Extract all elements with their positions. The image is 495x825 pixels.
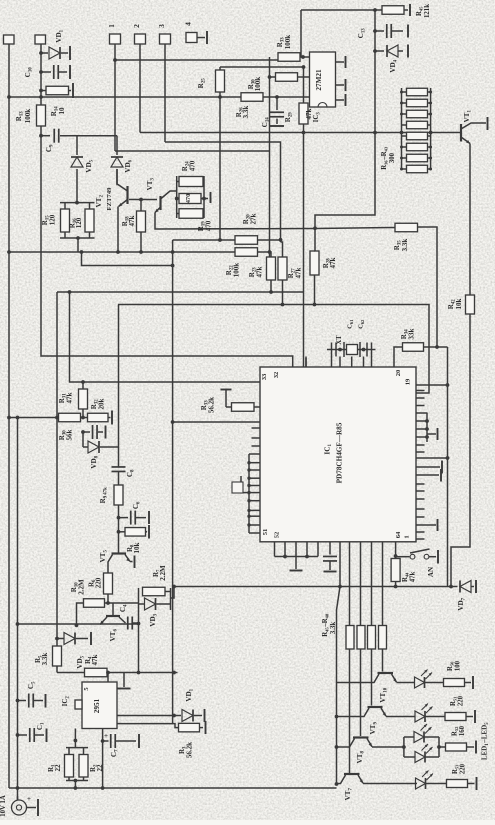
node pin19 [446,383,450,387]
node A2 [7,250,11,254]
transistor VT7 [344,773,360,775]
pin IC1 R44 stub [395,542,397,559]
svg-text:33: 33 [261,373,268,380]
pin wire y458 [416,457,448,459]
diode VD6 [116,136,118,155]
pin IC2 top [107,673,109,683]
resistor R45 121k [382,6,404,15]
diode VD8 [83,446,88,448]
node R25 bottom [218,95,222,99]
node top bus [373,8,377,12]
node C13 [373,29,377,33]
wire left bus A from pad to bottom rail [8,44,10,788]
node R1R2 rail [74,786,78,790]
transistor VT3 [159,196,161,210]
svg-text:27M21: 27M21 [315,69,323,91]
svg-text:47k: 47k [329,257,337,268]
node x138 bus624 [137,622,141,626]
resistor R52 160 [446,743,467,751]
node R29 bottom / bus y132 [302,131,306,135]
IC2 2951 [82,682,117,729]
node x172 bus cross [171,250,175,254]
power connector 10V 1A [12,800,27,815]
resistor R45b 3.3k [346,626,354,650]
svg-text:100: 100 [455,660,462,671]
wire bus y586 to VD7 [174,586,451,588]
pad terminal 1 [110,34,121,44]
capacitor C7 + [103,740,109,742]
terminal pin y525 [416,524,436,526]
wire bus y151 (pad1) [115,150,270,152]
node pad2-R [39,89,43,93]
pin IC2 right 1 wire [117,715,174,717]
capacitor C63 bottom [329,542,331,555]
wire x447 down [447,347,449,587]
resistor R15 [64,203,66,209]
wire bus y624 [18,623,139,625]
wire top bus y97 [9,96,310,98]
diode VD5b [57,638,64,640]
node R35 feed [313,226,317,230]
svg-text:AN: AN [427,567,435,577]
svg-text:220: 220 [95,577,103,588]
node x57 vertical [55,416,59,420]
diode VD1 [41,52,48,54]
svg-text:10V 1A: 10V 1A [0,795,7,817]
wire IC1 pin column K1 (common driver rail) [337,542,341,784]
resistor R50 100 [444,679,465,687]
svg-text:100k: 100k [254,77,262,92]
transistor VT1 [460,124,462,142]
diode VD4 [375,50,384,52]
capacitor C4 [127,617,129,630]
pin IC1 right short stubs [416,390,425,392]
pad P1 top-left [4,35,15,44]
capacitor C12 [83,431,90,433]
wire stack left rail [176,176,178,218]
svg-text:470: 470 [205,220,213,231]
node driver rail 716 [335,715,339,719]
wire bank left rail [401,88,403,170]
node pad2-C10 [39,70,43,74]
wire bank right rail [430,88,432,170]
svg-text:47k: 47k [66,392,74,403]
resistor R42 (bank 300) [407,154,428,162]
hook feed on left bus [243,492,249,494]
resistor R30b 56k [59,413,81,422]
svg-text:220: 220 [460,763,467,774]
svg-text:3.3k: 3.3k [242,106,250,119]
node C7 line rail [101,786,105,790]
terminal pad4 [197,37,205,39]
wire R30 left down [269,77,271,257]
node R27 feed [279,238,283,242]
svg-text:47k: 47k [305,108,313,119]
wire pair bottom down to bus [77,238,79,252]
wire IC1 pin column K4 [371,542,373,626]
svg-text:52: 52 [274,531,281,538]
node hang y252 [80,250,84,254]
svg-text:470: 470 [189,160,197,171]
resistor R16 [89,203,91,209]
node R8 branch [117,530,121,534]
resistor R8 10k [119,531,126,533]
wire bus y240 [173,239,235,241]
node driver rail 784 [335,782,339,786]
capacitor C13 [375,30,384,32]
LED row4 [416,778,426,789]
node XT left [338,348,342,352]
node R23b bottom [269,290,273,294]
wire IC1 pin column K2 [349,542,351,626]
diode VD3 [145,598,156,610]
LED row1 [415,677,425,688]
LED row3 dual [402,745,406,749]
svg-text:47k: 47k [91,654,99,665]
capacitor C62 [366,343,368,357]
IC3 27M21 [310,52,336,107]
wire bus y672 [57,672,178,674]
LED row2 [415,711,425,722]
node pair bottom to rail [74,779,78,783]
capacitor C9 [41,135,50,137]
node K1 bus586 [338,585,342,589]
pad P2 top-left [35,35,46,44]
svg-text:1: 1 [107,24,116,28]
svg-text:56.2k: 56.2k [208,397,216,413]
wire long center vertical x172 [172,240,174,724]
node bank left bus [400,131,404,135]
resistor R18 47k [140,200,142,212]
svg-text:56.2k: 56.2k [186,742,194,758]
resistor R33 100k [269,57,271,77]
transistor VT2 FZT749 [126,186,128,204]
svg-text:2951: 2951 [93,698,101,713]
wire left bus B (+V rail) down to power connector [17,418,19,801]
node VD5-R15 top [75,201,79,205]
node R33 right [301,55,305,59]
node bus624 left [16,622,20,626]
resistor R43 (bank 300) [407,165,428,173]
wire pin y422 [173,421,260,423]
transistor VT8 [353,736,369,738]
wire to switch AN [396,556,410,558]
wire R1/R2 bottom rail [66,780,88,782]
diode VD1b [174,715,181,717]
node R6 bottom [106,601,110,605]
node VD7 feed [449,585,453,589]
transistor VT6 [106,615,120,617]
svg-text:51: 51 [262,529,269,536]
svg-text:300: 300 [389,152,396,163]
wire bus top y10 [301,9,382,11]
resistor R26 3.3k (in bus y97) [241,93,263,102]
wire VD8 feed [82,432,84,447]
resistor R30 100k [270,76,276,78]
node x172 cross y672 [172,671,176,675]
pin stubs IC1 top [305,357,307,368]
svg-text:2.2M: 2.2M [78,579,86,595]
capacitor C6 [119,517,129,519]
svg-text:33k: 33k [408,328,416,339]
svg-text:100k: 100k [24,109,32,124]
op-amp IC1 PD78CH4GF-R85 (MCU) [260,367,416,542]
svg-text:56k: 56k [66,429,74,440]
wire VT3 emitter run to R35 [155,213,395,230]
resistor R31 47k [82,382,84,389]
pin 27M21 right 1 [336,61,345,63]
node R23 right lead [268,250,272,254]
wire bus y304 [118,305,429,394]
svg-text:20k: 20k [98,398,106,409]
node VD1b feed [172,714,176,718]
wire bus y417 from A [9,417,59,419]
ground IC1 bottom [295,557,297,570]
svg-text:2.2M: 2.2M [159,565,167,581]
wire bus y603 / R9b 2.2M [77,603,84,625]
node R29 top feed [302,65,306,69]
wire bus y292 [57,291,304,293]
node R18 bottom [139,250,143,254]
svg-text:27k: 27k [250,213,258,224]
resistor R38 (bank 300) [407,110,428,118]
node y458 [446,456,450,460]
terminal R33b hanger [221,389,232,391]
wire bottom rail [9,787,337,789]
node VT2 emitter bus [116,250,120,254]
wire R42 down and over to VD7 bus [451,314,470,587]
node bus y586 start [172,585,176,589]
node R35 wire join [435,345,439,349]
resistor R39 (bank 300) [407,121,428,129]
wire bus y252 [9,251,235,253]
resistor R46 3.3k [357,626,365,650]
pin IC1 bottom stubs gnd group [274,542,276,557]
svg-text:19: 19 [405,378,412,385]
wire R14 down to corner y356 bus [41,126,293,367]
terminal stub y434 [427,433,436,435]
wire R1/R2 top rail [66,747,88,749]
terminal stack tap [204,198,208,200]
wire pad2 line down [139,44,141,133]
resistor R24 470 (top of stack) [179,177,203,187]
crystal XT [343,342,345,357]
resistor R33b 56.2k [226,406,232,408]
node R10 drop [75,623,79,627]
node XT right [362,348,366,352]
wire pad1 branch to R33 [115,59,278,61]
wire bus y132 (pad2) to VT1 base [140,132,461,134]
svg-text:20: 20 [395,369,402,376]
resistor R35 3.3k [395,223,418,232]
svg-text:+: + [104,732,108,740]
svg-text:2: 2 [132,24,141,28]
svg-text:XT: XT [336,335,343,345]
wire VT2 base to VT3 [129,199,157,201]
diode VD5 [76,136,78,155]
resistor R14 [37,105,46,126]
resistor (top-left, to terminal) [41,90,46,92]
pin IC1 left short stubs [252,427,261,429]
node R27 bottom [281,303,285,307]
wire x57 vertical [56,292,58,646]
node R25 vertical join [218,238,222,242]
switch AN [410,554,415,559]
terminal pin y467 [416,466,440,468]
resistor R44 47k [391,559,400,582]
capacitor C5 [16,699,20,703]
node pin33 riser [68,290,72,294]
resistor R23 47k (horizontal) [235,248,258,257]
diode VD7 [451,586,458,588]
transistor VT5 [112,552,127,554]
svg-text:10k: 10k [455,298,463,309]
pin 19 wire [416,384,448,386]
transistor VT10 [378,672,394,674]
resistor R48 3.3k [379,626,387,650]
capacitor C1 [16,733,20,737]
wire VD3 bar down to bus624 [138,610,140,673]
wire R15/R16 bottom rail [60,237,95,239]
node R31 bottom junction [81,416,85,420]
wire XT cluster rail [327,349,376,351]
pin 27M21 right 2 [336,84,345,86]
capacitor C61 [331,343,333,357]
svg-text:47k: 47k [128,215,136,226]
resistor R7 2.2M [138,588,140,610]
node pair bottom [76,236,80,240]
svg-text:120: 120 [75,217,83,228]
svg-text:3.3k: 3.3k [330,622,337,634]
node R1R2 feed [74,739,78,743]
wire riser to pin33 bus [70,292,261,382]
svg-text:3.3k: 3.3k [41,653,49,666]
resistor R34 33k [394,347,403,367]
node bus B cross [16,416,20,420]
capacitor C8 [112,466,126,468]
resistor R27 47k vertical [278,257,287,280]
capacitor C14 [276,97,278,110]
resistor R1 22 [68,748,70,755]
resistor R42 10k [466,295,475,314]
resistor R40 (bank 300) [407,132,428,140]
wire IC1 pin column K3 [360,542,362,626]
resistor R5 3.3k [53,646,62,666]
wire C13-VD4 column x375 [315,10,375,257]
node R44 top [394,554,398,558]
node pad2-VD1 [39,51,43,55]
node R44 bottom [394,585,398,589]
wire VT1 emitter down through R42 [469,144,471,296]
svg-text:10: 10 [58,107,66,115]
svg-text:32: 32 [273,371,280,378]
svg-text:+: + [27,795,31,803]
svg-text:22: 22 [54,764,62,772]
transistor VT9 [368,706,383,708]
notch IC2 [75,700,82,709]
node C7 branch [101,739,105,743]
node power + rail [16,786,20,790]
resistor R23b vertical [267,257,276,280]
pin IC2 right 2 wire / R3 56.2k [117,724,179,728]
resistor R10 2.2M [84,599,105,608]
capacitor C10 [41,71,51,73]
node VD4 [373,49,377,53]
svg-text:64: 64 [395,531,402,538]
svg-text:47k: 47k [256,266,264,277]
pin IC2 bottom left [74,729,76,748]
wire R15/R16 top rail [60,202,95,204]
resistor R2 22 [83,748,85,755]
svg-text:4: 4 [184,22,193,26]
node C9 [39,134,43,138]
wire hang to x172 link [82,252,173,266]
resistor R4 47k (in bus) [85,668,108,677]
resistor R51 220 [445,713,466,721]
resistor R32 20k [81,417,88,419]
resistor R22 100k [235,236,258,245]
wire pad1 down [114,44,116,151]
node stack right mid [202,197,206,201]
svg-text:470: 470 [185,194,192,204]
resistor R19 470 (bottom of stack) [179,209,203,219]
resistor 470 (middle of stack) [179,194,201,204]
svg-text:10k: 10k [133,542,141,553]
svg-text:3.3k: 3.3k [401,239,409,252]
node C12 branch [81,430,85,434]
node pad1 branch [113,58,117,62]
wire C9 to VD6 top [77,135,117,137]
pin IC2 bottom right / C7 [102,729,104,789]
node R14 top [39,95,43,99]
pad terminal 2 [135,34,146,44]
svg-text:100k: 100k [233,263,241,278]
node R5 top branch [55,637,59,641]
wire IC1 pin column K5 [382,542,384,626]
node x172 to pin [171,420,175,424]
wire bus y142 (pad3) [165,142,281,242]
resistor R6 220 [104,573,113,594]
resistor R29 47k [303,67,305,103]
node R18 top [139,198,143,202]
svg-text:PD78CH4GF—R85: PD78CH4GF—R85 [336,422,344,483]
pin IC1 left bus stubs [248,454,250,533]
node R30 left [268,75,272,79]
pad terminal 4 [186,33,197,43]
resistor R41 (bank 300) [407,143,428,151]
resistor R36 (bank 300) [407,88,428,96]
resistor R9 47k [118,472,120,486]
svg-text:3: 3 [157,24,166,28]
resistor R28 47k [310,251,319,275]
wire top bus to R33 pin [300,10,302,57]
node VT6 line join [137,671,141,675]
node R28 bottom [313,303,317,307]
svg-text:100k: 100k [284,35,292,50]
pin 27M21 right 3 [336,99,345,101]
resistor R37 (bank 300) [407,99,428,107]
wire R25 top to R29 chain [220,66,304,68]
svg-text:1: 1 [404,535,411,538]
wire chain x118 down [118,305,120,468]
svg-text:FZT749: FZT749 [106,187,113,211]
node C6 branch [117,516,121,520]
resistor R47 3.3k [368,626,376,650]
svg-text:160: 160 [459,725,466,736]
node driver rail 747 [335,745,339,749]
wire pad P2 down [40,44,42,105]
svg-text:47k: 47k [410,571,417,582]
